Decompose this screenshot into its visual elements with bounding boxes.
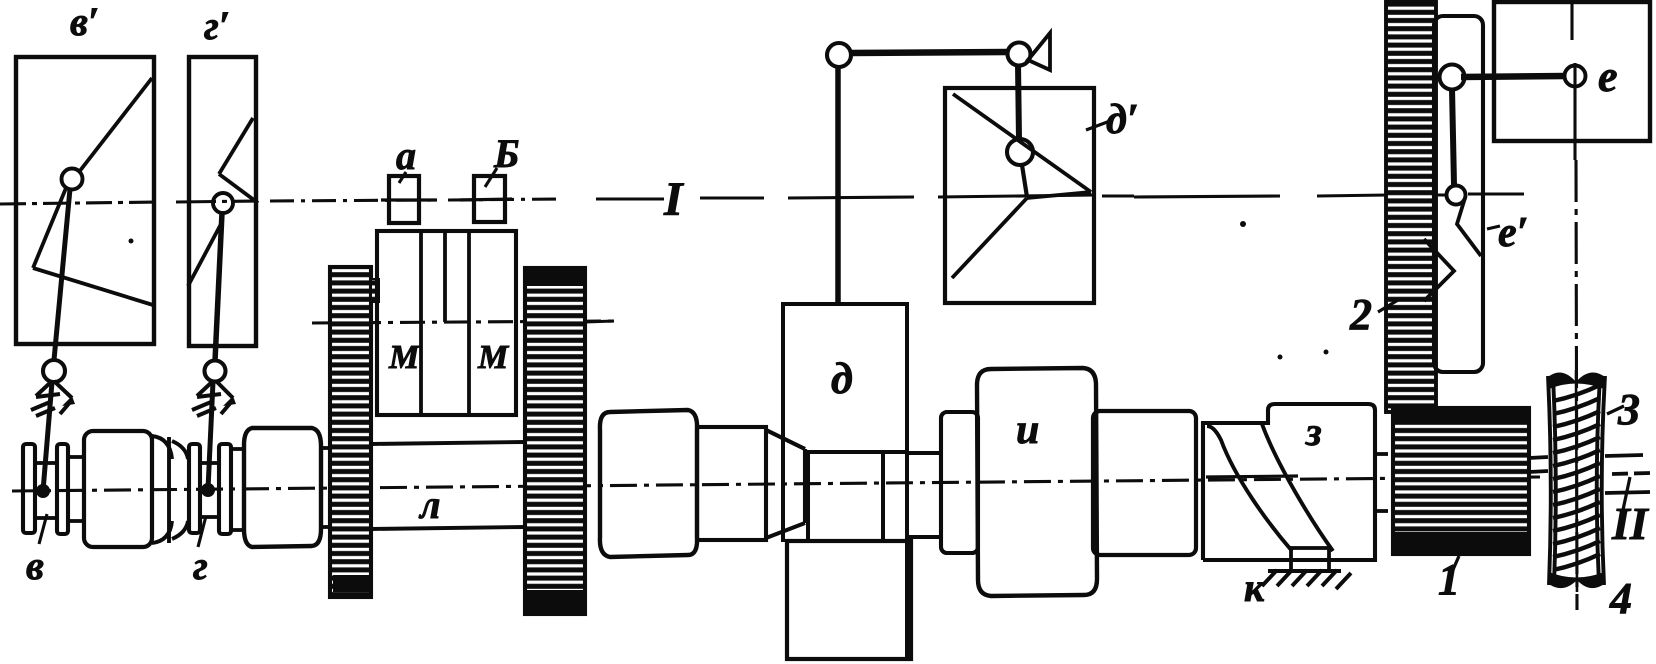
screw block з (1203, 404, 1375, 560)
collar в (68, 457, 84, 521)
barrel и (977, 368, 1097, 596)
svg-text:4: 4 (1609, 574, 1632, 623)
shaft л (371, 442, 525, 529)
roller follower в' (62, 169, 83, 190)
block after и (1093, 411, 1196, 555)
drum block д (783, 304, 907, 658)
pivot circle в (43, 360, 65, 382)
svg-text:Б: Б (493, 131, 519, 176)
follower frame bracket (1434, 16, 1483, 372)
svg-text:д: д (831, 354, 853, 403)
pin circle in е (1565, 66, 1586, 87)
label leader 1 (1452, 556, 1459, 572)
label leader 2 (1378, 300, 1398, 312)
speck (1324, 350, 1329, 355)
svg-text:е′: е′ (1498, 210, 1528, 256)
shaft stub to gear (321, 448, 331, 527)
crank bar (1461, 76, 1565, 77)
worm axis line (1576, 370, 1577, 592)
bearing square а (389, 176, 419, 223)
svg-text:3: 3 (1617, 385, 1640, 434)
label leader д' (1086, 121, 1110, 130)
lower drum д (787, 541, 911, 659)
collar before и (941, 412, 978, 553)
link bar (850, 52, 1008, 53)
cam plate г 1 (189, 444, 200, 533)
svg-text:I: I (663, 173, 685, 226)
roller д' (1007, 139, 1033, 165)
pivot circle г (205, 361, 226, 382)
cone section (697, 427, 766, 540)
clutch block M (377, 231, 516, 415)
worm shaft stubs (1529, 455, 1650, 493)
svg-text:в′: в′ (70, 0, 99, 44)
cam drum box д' (945, 88, 1094, 303)
speck (1240, 221, 1246, 227)
svg-text:в: в (26, 543, 44, 588)
svg-text:е: е (1598, 52, 1618, 101)
barrel 3 (600, 410, 697, 557)
link pivot circle right (1008, 43, 1031, 66)
counter shaft axis (312, 321, 616, 323)
axis solid through а/Б (381, 199, 1298, 477)
follower rod д' (1018, 64, 1019, 140)
label leader г (198, 516, 206, 547)
pivot ground в (31, 381, 72, 416)
cone nose (766, 430, 805, 538)
camshaft I axis (0, 194, 1524, 204)
svg-text:М: М (477, 339, 510, 376)
bearing square Б (474, 176, 505, 222)
gear 2 (hatched column) (1386, 0, 1436, 412)
stub з-gear (1375, 454, 1388, 511)
label leader в (39, 514, 47, 544)
ground к (1262, 570, 1351, 589)
svg-text:2: 2 (1349, 290, 1372, 339)
clutch drum 1 (84, 431, 152, 547)
screw foot (1291, 548, 1329, 571)
lever to cam в (43, 382, 52, 491)
main shaft axis (12, 477, 1540, 491)
svg-text:II: II (1611, 498, 1650, 549)
lever to cam г (208, 382, 213, 489)
helical band (1207, 424, 1333, 551)
label leader II (1620, 477, 1630, 524)
svg-text:а: а (396, 133, 416, 178)
pivot flag (1028, 33, 1050, 70)
cam plate в 1 (23, 444, 35, 533)
svg-text:и: и (1016, 407, 1039, 453)
roller follower г' (213, 193, 233, 213)
follower lever г' (215, 213, 222, 361)
cam plate в 2 (57, 444, 68, 534)
link rod to д (835, 66, 841, 304)
link pivot circle left (827, 43, 851, 67)
worm wheel 3/4 (1548, 376, 1605, 585)
svg-text:М: М (388, 339, 421, 376)
label leader 3 (1607, 406, 1624, 414)
pivot ground г (192, 381, 233, 416)
vertical shaft II axis (1572, 2, 1577, 610)
label leader е' (1487, 226, 1500, 229)
joint dot в (36, 484, 50, 498)
speck (129, 239, 134, 244)
counter axis stub (585, 321, 614, 322)
cam drum box г' (189, 57, 256, 346)
gear 1 (hatched) (1393, 408, 1529, 554)
svg-text:л: л (418, 482, 441, 527)
joint dot г (201, 483, 215, 497)
speck (1278, 355, 1283, 360)
crank rod down (1452, 88, 1454, 185)
barrel clutch 2 (244, 428, 321, 547)
roller е' (1447, 186, 1466, 205)
cam profile д' (952, 94, 1091, 278)
worm threads (1553, 385, 1600, 570)
gear A (hatched) (330, 267, 371, 597)
svg-text:к: к (1244, 565, 1266, 610)
cam profile е' (1424, 198, 1481, 301)
box е (1494, 2, 1650, 141)
cam hub в (35, 463, 57, 518)
shaft stub д-и (907, 453, 941, 537)
svg-text:г: г (193, 543, 208, 588)
svg-text:1: 1 (1438, 555, 1460, 604)
bell socket arcs (152, 436, 188, 543)
crank circle big (1440, 65, 1465, 90)
cam plate г 2 (219, 444, 231, 534)
follower lever в' (54, 189, 70, 360)
collar г (231, 449, 244, 530)
svg-text:з: з (1305, 409, 1322, 454)
cam hub г (200, 463, 219, 517)
cam profile in г' (188, 118, 258, 286)
cam profile in в' (33, 78, 153, 305)
svg-text:д′: д′ (1106, 97, 1139, 143)
cam drum box в' (16, 57, 154, 344)
gear B (hatched) (525, 268, 585, 614)
svg-text:г′: г′ (204, 3, 230, 48)
